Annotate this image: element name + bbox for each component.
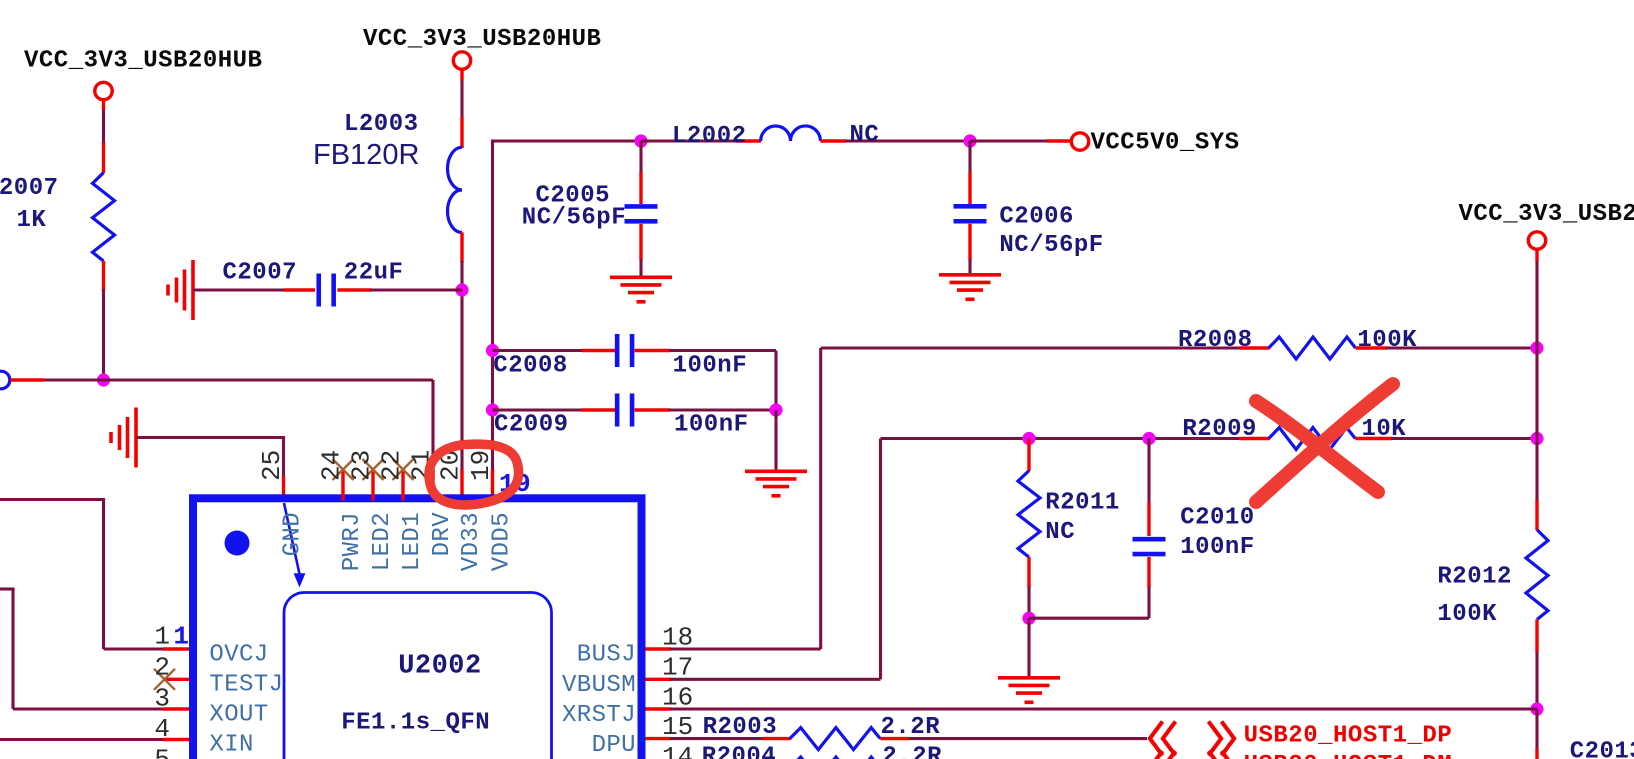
value R2007 1K [17,207,47,234]
annotation red ellipse around pins 20/19 [429,444,519,505]
pin 24 stub [341,470,344,501]
pin number 15 [662,712,693,742]
pin 25 stub [282,476,285,501]
ground (pin25 GND) [111,408,136,468]
svg-text:1K: 1K [17,207,47,234]
value R2008 100K [1357,327,1417,354]
svg-text:R2009: R2009 [1182,416,1257,443]
node junction C2010 top [1142,432,1155,445]
label C2006 [999,203,1074,230]
pin number 1 [154,621,170,651]
label R2012 [1437,564,1512,591]
wire to pin1 OVCJ [0,500,164,650]
port chevrons USB20_HOST1_DM (clipped) [1150,751,1234,759]
pin 19 stub [491,470,494,501]
pin name TESTJ [209,672,283,699]
node junction C2009 left [486,403,499,416]
resistor R2008 [1269,337,1356,359]
svg-text:NC: NC [1045,519,1075,546]
no-connect X pin 22 [393,459,414,480]
wire pin18 to R2008 [670,348,1270,649]
pin 16 stub [646,707,672,710]
ground (C2008/C2009) [745,471,807,496]
svg-text:GND: GND [280,512,307,556]
svg-text:DPU: DPU [592,732,636,759]
wire R2009 to rail [1355,437,1537,440]
svg-text:5: 5 [154,744,170,759]
value C2010 100nF [1180,534,1255,561]
svg-text:XRSTJ: XRSTJ [562,702,636,729]
pin 23 stub [371,470,374,501]
label U2002 [398,651,482,681]
svg-text:1: 1 [173,621,189,651]
value R2011 NC [1045,519,1075,546]
wire R2007 to junction [102,261,105,380]
svg-text:R2012: R2012 [1437,564,1512,591]
pin name GND (rotated) [280,512,307,556]
wire junction to R2011 [1027,439,1030,472]
svg-text:100nF: 100nF [673,352,748,379]
pin name PWRJ (rotated) [339,512,366,571]
svg-text:XIN: XIN [209,732,253,759]
pin name XOUT [209,702,268,729]
wire to C2005 [639,141,642,204]
svg-text:PWRJ: PWRJ [339,512,366,571]
node junction R2008/rail [1530,341,1543,354]
pin name BUSJ [577,642,636,669]
label C2013 (clipped) [1570,739,1634,759]
svg-text:100K: 100K [1357,327,1417,354]
svg-text:24: 24 [317,450,347,481]
capacitor C2010 [1133,539,1166,554]
svg-text:VD33: VD33 [458,512,485,571]
value R2009 10K [1362,416,1407,443]
value L2002 NC [850,122,880,149]
svg-text:22: 22 [377,450,407,481]
resistor R2012 [1526,530,1548,620]
svg-text:L2002: L2002 [672,123,747,150]
label L2002 [672,123,747,150]
power symbol VCC_3V3_USB20HUB (left) [95,82,112,99]
wire to C2006 [968,141,971,204]
svg-text:NC/56pF: NC/56pF [999,232,1103,259]
svg-text:LED1: LED1 [399,512,426,571]
value C2005 NC/56pF [522,205,626,232]
ground (C2006) [939,275,1001,300]
svg-text:C2010: C2010 [1180,505,1255,532]
node junction C2008 left [486,344,499,357]
wire ground to C2007 [193,288,315,291]
wire junction to VCC5V0_SYS [970,139,1071,142]
svg-text:18: 18 [662,622,693,652]
pin number 25 (rotated) [257,450,287,481]
pin number 14 (clipped) [662,742,693,759]
svg-text:U2002: U2002 [398,651,482,681]
svg-text:R2008: R2008 [1178,327,1253,354]
pin 1 stub [163,647,191,650]
svg-text:USB20_HOST1_DP: USB20_HOST1_DP [1244,723,1453,750]
svg-text:100nF: 100nF [674,412,749,439]
IC pin-1 indicator dot [225,531,250,556]
wire junction to C2010 [1147,439,1150,537]
wire pin15 to R2003 [670,737,791,740]
wire VCC_3V3_USB2 rail [1535,249,1538,501]
svg-text:R2004: R2004 [702,743,777,759]
pin 2 stub [163,678,191,681]
wire VCC to R2007 [102,99,105,173]
svg-text:USB20_HOST1_DM: USB20_HOST1_DM [1244,752,1453,759]
svg-text:R2011: R2011 [1045,490,1120,517]
node junction R2011 top [1022,432,1035,445]
off-page connector circle (left edge) [0,371,10,389]
pin number 22 (rotated) [377,450,407,481]
wire junction to ground (R2011/C2010) [1027,618,1030,678]
value R2004 2.2R [882,743,942,759]
resistor R2011 [1018,471,1040,557]
svg-text:LED2: LED2 [369,512,396,571]
pin number 16 [662,682,693,712]
svg-text:VDD5: VDD5 [489,512,516,571]
pin 22 stub [401,470,404,501]
svg-text:3: 3 [154,684,170,714]
value C2007 22uF [344,260,404,287]
svg-text:L2003: L2003 [344,111,419,138]
pin 17 stub [646,678,672,681]
net label VCC_3V3_USB20HUB (left) [24,48,262,75]
svg-text:100nF: 100nF [1180,534,1255,561]
label C2009 [494,412,569,439]
label R2007 (clipped) [0,175,59,202]
capacitor C2009 [617,394,632,427]
svg-text:OVCJ: OVCJ [209,641,268,668]
capacitor C2008 [617,334,632,367]
wire pin17 to R2009 [670,439,1270,680]
svg-text:100K: 100K [1437,601,1497,628]
node junction C2005 [634,134,647,147]
IC GND arrow [284,503,305,588]
pin number 23 (rotated) [347,450,377,481]
pin name VDD5 (rotated) [489,512,516,571]
pin name VD33 (rotated) [458,512,485,571]
wire junction to L2002 [641,139,761,142]
svg-text:14: 14 [662,742,693,759]
pin number 24 (rotated) [317,450,347,481]
svg-text:R2003: R2003 [703,714,778,741]
wire R2011 to junction [1027,557,1030,618]
wire C2007 to junction [337,288,462,291]
value C2006 NC/56pF [999,232,1103,259]
capacitor C2006 [954,206,987,221]
capacitor C2005 [625,206,658,221]
svg-text:16: 16 [662,682,693,712]
annotation blue 19 (pin 19) [499,469,531,499]
pin 4 stub [163,738,191,741]
power symbol VCC_3V3_USB2 (right) [1528,232,1545,249]
wire R2012 to junction [1535,620,1538,710]
node junction C2009/C2008 right [769,403,782,416]
net label USB20_HOST1_DM (clipped) [1244,752,1453,759]
wire rail to R2012 [1535,500,1538,531]
pin name VBUSM [562,672,636,699]
wire R2003 to port [880,737,1147,740]
node junction C2007/L2003 [455,283,468,296]
pin number 3 [154,684,170,714]
wire pin19 riser to L2002 net [493,140,643,472]
label C2007 [223,260,298,287]
pin name XRSTJ [562,702,636,729]
wire to ground (C2008/C2009) [774,410,777,472]
wire ground to pin25 [136,438,285,478]
label C2008 [493,352,568,379]
svg-text:TESTJ: TESTJ [209,672,283,699]
wire VCC to L2003 [460,70,463,149]
pin 15 stub [646,737,672,740]
wire C2005 to ground [639,224,642,277]
svg-text:C2009: C2009 [494,412,569,439]
pin 20 stub [460,470,463,501]
resistor R2003 [790,728,880,750]
wire C2006 to ground [968,224,971,275]
value R2012 100K [1437,601,1497,628]
inductor L2003 [448,147,462,232]
wire left connector to pin21 corner [11,380,434,471]
svg-text:17: 17 [662,652,693,682]
net label VCC_3V3_USB20HUB (top middle) [363,26,601,53]
wire C2009 right [635,408,776,411]
net label USB20_HOST1_DP [1244,723,1453,750]
value L2003 FB120R [313,139,419,171]
svg-text:15: 15 [662,712,693,742]
node junction R2011/C2010 bottom [1022,612,1035,625]
pin number 4 [154,714,170,744]
wire C2010 to corner [1029,557,1149,618]
svg-text:R2007: R2007 [0,175,59,202]
svg-text:2: 2 [154,653,170,683]
svg-text:NC/56pF: NC/56pF [522,205,626,232]
svg-text:BUSJ: BUSJ [577,642,636,669]
port chevrons USB20_HOST1_DP [1150,722,1234,756]
wire to pin4 XIN [0,738,164,741]
pin name XIN [209,732,253,759]
resistor R2009 [1269,428,1355,450]
ground (C2007) [168,260,193,320]
svg-text:FB120R: FB120R [313,139,419,171]
no-connect X pin 24 [333,459,354,480]
wire to pin3 XOUT [0,589,164,709]
op-amp U2002 outline [193,498,642,759]
IC U2002 inner boundary [284,593,552,759]
pin number 2 [154,653,170,683]
node junction R2009/rail [1530,432,1543,445]
wire L2003 to junction C2007 [460,232,463,471]
label R2008 [1178,327,1253,354]
svg-text:FE1.1s_QFN: FE1.1s_QFN [341,710,490,737]
label R2009 [1182,416,1257,443]
power symbol VCC5V0_SYS [1071,133,1088,150]
value R2003 2.2R [881,714,941,741]
label C2005 [536,183,611,210]
ground (R2011/C2010) [998,678,1060,703]
node junction R2007/left rail [97,373,110,386]
pin number 5 (clipped) [154,744,170,759]
pin number 19 (rotated) [466,450,496,481]
svg-text:XOUT: XOUT [209,702,268,729]
power symbol VCC_3V3_USB20HUB (top middle) [453,52,470,69]
annotation blue 1 (pin 1) [173,621,189,651]
ground (C2005) [610,277,672,302]
pin number 20 (rotated) [436,450,466,481]
capacitor C2007 [319,274,334,307]
svg-text:C2008: C2008 [493,352,568,379]
svg-text:19: 19 [466,450,496,481]
svg-text:VCC_3V3_USB20HUB: VCC_3V3_USB20HUB [363,26,601,53]
label R2003 [703,714,778,741]
pin name OVCJ [209,641,268,668]
pin number 21 (rotated) [407,450,437,481]
svg-text:2.2R: 2.2R [882,743,942,759]
wire C2008 left [493,349,616,352]
svg-text:1: 1 [154,621,170,651]
no-connect X pin 23 [363,459,384,480]
net label VCC_3V3_USB2 (right, clipped) [1459,201,1634,228]
wire C2008 right [635,351,776,412]
svg-text:VBUSM: VBUSM [562,672,636,699]
pin number 18 [662,622,693,652]
svg-text:22uF: 22uF [344,260,404,287]
resistor R2007 [93,173,115,261]
wire junction to C2013 [1535,709,1538,759]
no-connect X pin 2 [154,669,175,690]
svg-text:VCC_3V3_USB20HUB: VCC_3V3_USB20HUB [24,48,262,75]
resistor R2004 [790,757,880,759]
pin 18 stub [646,647,672,650]
wire L2002 to junction C2006 [820,139,971,142]
node junction R2012/XRSTJ [1530,702,1543,715]
pin name DRV (rotated) [429,512,456,557]
svg-text:DRV: DRV [429,512,456,557]
value C2008 100nF [673,352,748,379]
node junction C2006 [963,134,976,147]
pin name LED2 (rotated) [369,512,396,571]
pin name LED1 (rotated) [399,512,426,571]
svg-text:25: 25 [257,450,287,481]
svg-text:C2013: C2013 [1570,739,1634,759]
wire C2009 left [493,408,616,411]
label FE1.1s_QFN [341,710,490,737]
label R2004 [702,743,777,759]
pin 21 stub [431,470,434,501]
svg-text:VCC_3V3_USB20HUB: VCC_3V3_USB20HUB [1459,201,1634,228]
annotation red X over R2009 [1256,384,1393,502]
svg-text:NC: NC [850,122,880,149]
wire R2008 to rail [1356,346,1538,349]
svg-text:C2007: C2007 [223,260,298,287]
svg-text:23: 23 [347,450,377,481]
net label VCC5V0_SYS [1091,130,1240,157]
svg-text:C2006: C2006 [999,203,1074,230]
pin name DPU [592,732,636,759]
svg-text:4: 4 [154,714,170,744]
inductor L2002 [761,126,821,141]
label R2011 [1045,490,1120,517]
pin number 17 [662,652,693,682]
wire pin16 XRSTJ [670,707,1537,710]
svg-text:VCC5V0_SYS: VCC5V0_SYS [1091,130,1240,157]
label C2010 [1180,505,1255,532]
value C2009 100nF [674,412,749,439]
label L2003 [344,111,419,138]
pin 3 stub [163,707,191,710]
